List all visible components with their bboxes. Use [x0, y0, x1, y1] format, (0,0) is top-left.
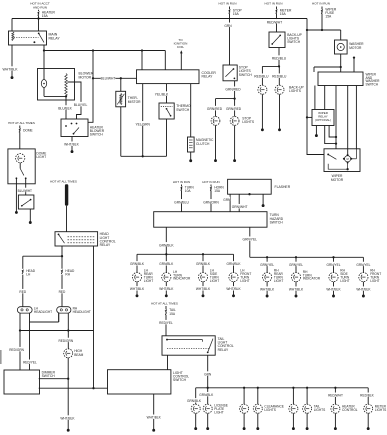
svg-text:DOME: DOME — [23, 129, 33, 133]
svg-text:HOT AT ALL TIMES: HOT AT ALL TIMES — [8, 121, 35, 125]
svg-text:WHT/BLK: WHT/BLK — [147, 416, 162, 420]
svg-text:MOTOR: MOTOR — [79, 75, 92, 79]
svg-text:RED/GRN: RED/GRN — [9, 348, 24, 352]
svg-text:GRN/BLK: GRN/BLK — [159, 243, 174, 247]
svg-text:RED/WHT: RED/WHT — [328, 394, 343, 398]
svg-text:WHT/BLK: WHT/BLK — [60, 416, 75, 420]
svg-text:LIGHTS: LIGHTS — [375, 408, 387, 412]
svg-text:GRN/ORN: GRN/ORN — [203, 200, 219, 204]
svg-text:RELAY: RELAY — [100, 243, 111, 247]
svg-text:RED/YEL: RED/YEL — [159, 321, 173, 325]
svg-text:GRN/YEL: GRN/YEL — [260, 263, 274, 267]
svg-text:RH: RH — [65, 273, 70, 277]
svg-text:GRN/BLK: GRN/BLK — [130, 262, 145, 266]
svg-text:CONTROL: CONTROL — [342, 408, 358, 412]
svg-text:GRN/YEL: GRN/YEL — [289, 263, 303, 267]
svg-text:LIGHT: LIGHT — [214, 410, 223, 414]
svg-text:YEL/BLK: YEL/BLK — [155, 93, 169, 97]
svg-text:MOTOR: MOTOR — [349, 46, 362, 50]
svg-text:GRN/YEL: GRN/YEL — [327, 263, 341, 267]
svg-text:WHT/BLK: WHT/BLK — [130, 287, 145, 291]
svg-text:RELAY: RELAY — [218, 348, 229, 352]
svg-text:SWITCH: SWITCH — [239, 73, 253, 77]
svg-text:RELAY: RELAY — [202, 75, 214, 79]
svg-text:GRN/WHT: GRN/WHT — [232, 205, 248, 209]
svg-text:INDICATOR: INDICATOR — [173, 277, 191, 281]
svg-text:INDICATOR: INDICATOR — [303, 277, 321, 281]
svg-text:HOT AT ALL TIMES: HOT AT ALL TIMES — [50, 179, 77, 183]
svg-text:GRN/BLK: GRN/BLK — [199, 393, 214, 397]
svg-text:LH: LH — [26, 273, 31, 277]
svg-text:WHT/BLK: WHT/BLK — [2, 68, 18, 72]
svg-text:GRN/BLU: GRN/BLU — [174, 200, 189, 204]
svg-text:SWITCH: SWITCH — [176, 108, 190, 112]
svg-text:YEL/GRN: YEL/GRN — [135, 122, 150, 126]
svg-text:WHT/BLK: WHT/BLK — [289, 288, 304, 292]
svg-text:WHT/BLK: WHT/BLK — [196, 287, 211, 291]
svg-text:LIGHT: LIGHT — [340, 279, 349, 283]
svg-text:15A: 15A — [42, 14, 49, 18]
svg-text:15A: 15A — [325, 14, 332, 18]
svg-text:GRN: GRN — [223, 198, 231, 202]
svg-text:HEADLIGHT: HEADLIGHT — [73, 310, 91, 314]
svg-text:WHT/BLK: WHT/BLK — [260, 288, 275, 292]
svg-text:GRN/RED: GRN/RED — [226, 107, 242, 111]
svg-text:COIL: COIL — [177, 45, 185, 49]
svg-text:RED/BLU: RED/BLU — [272, 75, 287, 79]
svg-text:RELAY: RELAY — [49, 36, 61, 40]
svg-text:GRN/BLK: GRN/BLK — [196, 262, 211, 266]
svg-text:GRN: GRN — [204, 372, 212, 376]
svg-text:GRN/RED: GRN/RED — [207, 107, 223, 111]
svg-text:LIGHTS: LIGHTS — [314, 408, 326, 412]
svg-text:RED/YEL: RED/YEL — [23, 361, 37, 365]
svg-text:15A: 15A — [280, 12, 287, 16]
svg-text:BEAM: BEAM — [74, 353, 83, 357]
svg-text:SWITCH: SWITCH — [90, 133, 104, 137]
svg-text:SWITCH: SWITCH — [366, 83, 379, 87]
svg-text:SWITCH: SWITCH — [42, 374, 56, 378]
svg-text:WHT/BLK: WHT/BLK — [64, 143, 79, 147]
svg-text:RED/GRN: RED/GRN — [58, 339, 73, 343]
svg-text:LIGHT: LIGHT — [274, 279, 283, 283]
svg-text:GRN: GRN — [224, 24, 232, 28]
svg-text:WHT/BLK: WHT/BLK — [356, 288, 371, 292]
svg-text:SWITCH: SWITCH — [287, 40, 301, 44]
svg-text:15A: 15A — [214, 189, 221, 193]
svg-text:FLASHER: FLASHER — [275, 185, 291, 189]
svg-text:HEADLIGHT: HEADLIGHT — [34, 310, 52, 314]
svg-text:10A: 10A — [185, 189, 192, 193]
svg-text:SWITCH: SWITCH — [173, 378, 187, 382]
svg-text:LIGHTS: LIGHTS — [242, 120, 255, 124]
svg-text:BLU/WHT: BLU/WHT — [18, 189, 32, 193]
svg-text:GRN/BLK: GRN/BLK — [187, 399, 202, 403]
svg-text:HOT IN RUN: HOT IN RUN — [219, 2, 237, 6]
svg-text:HOT IN RUN: HOT IN RUN — [173, 180, 190, 184]
svg-text:LIGHT: LIGHT — [210, 279, 219, 283]
svg-text:WHT/BLK: WHT/BLK — [226, 287, 241, 291]
svg-text:GRN/BLK: GRN/BLK — [227, 262, 242, 266]
svg-text:HOT IN RUN: HOT IN RUN — [265, 2, 283, 6]
svg-text:LIGHTS: LIGHTS — [264, 408, 276, 412]
svg-text:(OPTIONAL): (OPTIONAL) — [315, 118, 331, 122]
svg-text:BLU/WHT: BLU/WHT — [101, 76, 116, 80]
svg-text:RED: RED — [59, 290, 66, 294]
svg-text:GRN/YEL: GRN/YEL — [243, 238, 258, 242]
svg-text:WHT/BLK: WHT/BLK — [159, 287, 174, 291]
svg-text:SWITCH: SWITCH — [270, 220, 284, 224]
svg-text:15A: 15A — [233, 12, 240, 16]
svg-text:RED/BLK: RED/BLK — [360, 394, 375, 398]
svg-text:HOT IN RUN: HOT IN RUN — [312, 2, 330, 6]
svg-text:LIGHTS: LIGHTS — [289, 89, 302, 93]
svg-text:RED/BLU: RED/BLU — [272, 57, 287, 61]
svg-text:RED: RED — [19, 290, 26, 294]
svg-text:MISTOR: MISTOR — [128, 100, 141, 104]
svg-text:LIGHT: LIGHT — [36, 155, 46, 159]
svg-text:15A: 15A — [169, 312, 176, 316]
svg-text:BLU/BLK: BLU/BLK — [58, 106, 72, 110]
svg-text:MOTOR: MOTOR — [331, 178, 344, 182]
svg-text:M: M — [347, 157, 349, 161]
svg-text:LIGHT: LIGHT — [144, 279, 153, 283]
svg-text:GRN/RED: GRN/RED — [225, 88, 241, 92]
svg-text:GRN/YEL: GRN/YEL — [356, 263, 370, 267]
svg-text:BLU/YEL: BLU/YEL — [74, 103, 88, 107]
svg-text:WHT/BLK: WHT/BLK — [326, 288, 341, 292]
svg-text:CLUTCH: CLUTCH — [196, 142, 210, 146]
svg-text:RED/BLU: RED/BLU — [254, 75, 269, 79]
svg-text:LIGHT: LIGHT — [370, 279, 379, 283]
svg-text:GRN/BLK: GRN/BLK — [159, 262, 174, 266]
svg-text:LIGHT: LIGHT — [240, 279, 249, 283]
svg-text:HOT IN RUN: HOT IN RUN — [202, 180, 219, 184]
svg-text:RED/WHT: RED/WHT — [267, 20, 282, 24]
svg-text:HOT AT ALL TIMES: HOT AT ALL TIMES — [151, 301, 178, 305]
svg-text:AND RUN: AND RUN — [33, 5, 47, 9]
